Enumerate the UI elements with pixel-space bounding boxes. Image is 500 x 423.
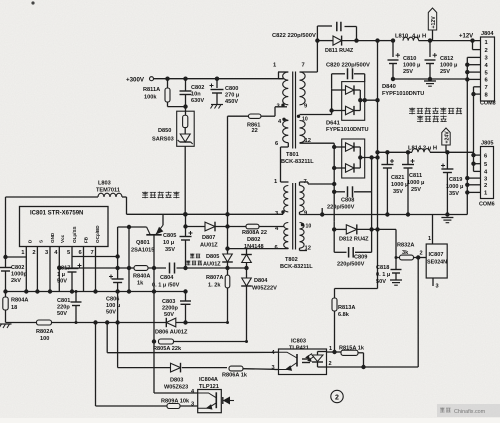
svg-text:630V: 630V [191,98,204,104]
wire J805 pin4 [474,170,481,172]
capacitor C801 [71,301,82,303]
wire [377,229,379,288]
IC807 body [426,244,447,278]
wire [354,89,360,91]
svg-text:C810: C810 [403,56,416,62]
svg-text:10 μ: 10 μ [163,240,175,246]
wire C822 loop right [356,27,358,41]
wire J804 pin6 [467,78,480,80]
svg-text:J805: J805 [481,141,493,147]
diode D806 [166,318,176,327]
T802 winding 10-12 [300,223,305,249]
junction [406,212,410,216]
svg-text:C818: C818 [376,265,389,271]
svg-text:270 μ: 270 μ [225,93,240,99]
junction [385,150,389,154]
T801 secondary winding 10-12 [300,121,306,143]
wire pin7 stub [300,71,318,73]
svg-text:Chinafix.com: Chinafix.com [454,409,486,415]
wire T802 pin7 stub [299,182,301,186]
wire [246,263,248,279]
wire [357,228,378,230]
wire J805 pin3 [467,177,480,179]
svg-text:SE024N: SE024N [427,260,447,266]
T802 core [292,183,294,250]
svg-text:C809: C809 [354,255,367,261]
svg-text:25V: 25V [411,187,421,193]
junction [445,150,449,154]
svg-text:D803: D803 [170,378,183,384]
wire pin1 down [25,259,27,292]
wire +300V rail [154,78,284,80]
junction [470,38,474,42]
junction [369,227,373,231]
svg-text:+12V: +12V [459,34,473,40]
svg-text:1k: 1k [137,281,144,287]
wire [363,353,365,367]
watermark [437,404,500,417]
junction [115,266,119,270]
note: secondary output of main SMPS [409,108,462,115]
plus C819 [441,165,445,167]
svg-text:TEM7011: TEM7011 [96,188,120,194]
svg-text:220p: 220p [57,305,70,311]
wire [227,268,229,275]
junction [244,266,248,270]
junction [406,150,410,154]
wire riser from T801 pin7 [316,41,318,72]
wire [307,182,309,184]
svg-text:50V: 50V [376,279,386,285]
wire top rail [6,196,99,198]
junction [183,212,187,216]
wire [58,268,60,292]
wire IC801 pin7 [95,247,97,259]
svg-text:35V: 35V [393,189,403,195]
plus C806 [109,276,113,278]
phase dot pin4 [282,118,285,121]
svg-text:1000 μ: 1000 μ [440,63,458,69]
wire [228,115,249,117]
wire pin4 down [58,259,60,269]
wire [333,221,335,229]
svg-text:D811 RU4Z: D811 RU4Z [325,48,354,54]
capacitor C812 (electrolytic) [425,59,436,61]
svg-text:3: 3 [191,402,194,408]
wire [185,79,187,91]
svg-text:1: 1 [329,346,332,352]
ground C818 [390,279,402,281]
svg-text:3k: 3k [402,250,409,256]
svg-text:COM8: COM8 [480,101,496,107]
wire C810 top [392,41,394,57]
svg-text:Vcc: Vcc [60,234,65,243]
note: aux power supply [186,261,202,266]
svg-text:450V: 450V [225,99,238,105]
wire D803 row [118,367,171,369]
coupling mark [302,358,310,360]
wire Q801 base down [153,235,155,393]
wire D850 down [184,146,186,214]
flag +12V [428,8,436,30]
svg-text:6.8k: 6.8k [338,312,350,318]
capacitor C821 (electrolytic) [381,164,393,166]
junction [93,289,97,293]
wire [246,249,248,255]
junction [375,155,379,159]
wire [168,106,186,108]
svg-text:0. 1 μ /50V: 0. 1 μ /50V [152,283,180,289]
wire pin1 branch to left rail [6,256,27,258]
junction [165,77,169,81]
wire J805 pin2 [467,184,480,186]
junction [3,289,7,293]
capacitor C802 10n [180,90,192,92]
svg-text:D850: D850 [158,128,171,134]
wire [317,352,319,356]
junction [471,153,475,157]
wire [174,341,247,343]
wire [417,258,419,368]
Q801 collector [147,227,151,235]
svg-text:IC804A: IC804A [199,377,218,383]
resistor R804A [3,297,8,310]
wire Vcc row [127,213,284,215]
wire IC801 pin2 [36,247,38,259]
wire [354,146,360,148]
junction [465,77,469,81]
wire J804 pin2 branch [472,41,474,50]
wire +12V to J804 [419,40,481,42]
wire J804 pin4 [467,64,480,66]
svg-text:35V: 35V [449,191,459,197]
svg-text:IC807: IC807 [429,252,444,258]
junction [127,289,131,293]
wire pin4 row [154,392,198,394]
wire link T801-6 to T802-1 [280,147,282,182]
wire vertical x371 [371,158,373,253]
junction [375,98,379,102]
plus C817 [78,265,82,267]
junction [127,266,131,270]
wire J805 pin5 [474,163,481,165]
svg-text:T801: T801 [286,152,299,158]
wire C811 top [407,152,409,164]
svg-text:1 μ: 1 μ [57,272,66,278]
junction [93,320,97,324]
wire [167,79,169,88]
wire Vcc link [72,256,118,258]
resistor R840A [134,266,148,271]
svg-text:3: 3 [436,284,439,290]
junction [332,190,336,194]
Q801 base bar [146,234,161,236]
wire pin3 down [49,259,51,292]
wire IC801 pin3 [49,247,51,259]
svg-text:3: 3 [272,365,275,371]
svg-text:2kV: 2kV [11,278,21,284]
wire [215,226,246,228]
wire R813A to opto [334,311,336,352]
junction [416,255,420,259]
svg-text:L810: L810 [395,34,408,40]
wire [395,273,397,280]
T802 winding 7-9 [300,186,305,212]
wire C821 top [386,152,388,164]
note: from [190,254,200,259]
junction [320,212,324,216]
wire J804 pin7 [474,86,481,88]
svg-text:7: 7 [91,250,94,256]
capacitor C809 [348,247,350,257]
svg-text:R804A: R804A [11,298,28,304]
wire [317,362,319,367]
wire C803 bottom [185,304,187,322]
svg-text:OLp/SS: OLp/SS [72,226,77,243]
wire T801 pin6 stub [287,143,289,147]
wire C812 top [429,41,431,57]
wire C801 bottom [75,306,77,323]
wire [278,72,280,79]
wire IC807 pin1 to rail [432,215,434,245]
wire [5,310,7,323]
IC803 emitter arrow [286,366,291,370]
wire [261,115,275,117]
junction [369,155,373,159]
wire R809A row [96,405,168,407]
wire to IC807 pin2 [414,257,427,259]
wire pin2 down [36,259,38,292]
svg-text:1000p: 1000p [11,272,27,278]
wire J804 pin3 [467,56,480,58]
wire [148,267,166,269]
wire [281,181,289,183]
wire C808 left [334,191,345,193]
svg-text:T802: T802 [285,257,298,263]
junction [375,227,379,231]
svg-text:S: S [39,240,44,243]
junction [465,176,469,180]
wire [52,322,166,324]
IC801 body [20,207,109,247]
wire stub [321,208,323,215]
wire [117,283,119,368]
wire pin3 stub [275,369,279,371]
junction [183,266,187,270]
wire aux rectifier feed [228,248,289,250]
junction [332,166,336,170]
svg-text:18: 18 [11,305,17,311]
svg-text:50V: 50V [164,312,174,318]
wire [335,288,378,290]
junction [105,320,109,324]
stray dot top [31,1,34,4]
wire C803 top [185,292,187,302]
connector J805 body [481,147,494,199]
stub [230,400,235,402]
junction [465,70,469,74]
svg-text:W05Z623: W05Z623 [164,385,188,391]
wire J804 pin8 [474,93,481,95]
note: output circuit [417,116,447,123]
capacitor C811 (electrolytic) [402,164,414,166]
svg-text:OCp/BD: OCp/BD [95,225,100,243]
svg-text:GND: GND [50,232,55,243]
wire pin7 down [95,259,97,292]
junction [35,289,39,293]
resistor R809A [167,404,180,409]
svg-text:50V: 50V [57,279,67,285]
zener inside D850 [180,134,190,142]
svg-text:1000 μ: 1000 μ [407,180,425,186]
wire J805 pin6 [474,154,481,156]
wire IC803 pin4 row [107,351,274,353]
wire [334,228,346,230]
wire [176,322,228,324]
Q801 emitter arrow [157,228,163,234]
junction [375,38,379,42]
junction [3,255,7,259]
junction [354,38,358,42]
svg-text:D802: D802 [247,237,260,243]
diode D812 [346,225,357,234]
wire C805 bottom [185,240,187,268]
wire box2 input link [333,143,335,184]
wire collector row [118,226,147,228]
junction [471,162,475,166]
wire J805 pin1 [467,191,480,193]
svg-text:7: 7 [302,63,305,69]
resistor R805A [159,339,174,344]
plus C821 [390,160,394,162]
plus C811 [411,160,415,162]
wire [122,196,127,198]
wire [246,286,248,342]
wire C810 bottom [392,64,394,80]
wire [332,89,346,91]
svg-text:22: 22 [252,128,258,134]
wire R861 drop [227,116,229,226]
wire +24V to J805 [430,151,474,153]
wire +24V bus vertical [473,87,475,172]
svg-text:C819: C819 [449,177,462,183]
svg-text:C803: C803 [162,299,175,305]
svg-text:C811: C811 [409,173,422,179]
wire C820 loop right [364,74,366,82]
phase dot T802 pin10 [301,223,304,226]
junction [391,77,395,81]
svg-text:C805: C805 [163,233,176,239]
wire IC801 pin1 [25,247,27,259]
connector J804 body [481,37,495,101]
wire pin6 down [83,259,85,292]
chassis ground C800 [211,104,223,106]
diode D641a [346,143,355,151]
wire T802 pin9 stub [299,212,301,215]
wire IC801 pin6 [83,247,85,259]
wire [177,267,228,269]
wire [332,73,345,75]
wire [227,288,229,323]
wire IC801 pin4 [58,247,60,259]
T801 secondary winding 7-9 [300,72,306,105]
wire [334,167,345,169]
resistor inside D850 [183,115,188,127]
svg-text:10: 10 [306,224,312,230]
wire [227,262,229,268]
svg-text:2: 2 [485,48,488,54]
wire +12V [342,40,379,42]
svg-text:R802A: R802A [36,329,53,335]
junction [183,289,187,293]
svg-text:25V: 25V [440,69,450,75]
svg-text:C802: C802 [11,265,24,271]
diode D641b [346,164,355,172]
wire [334,251,346,253]
svg-text:1: 1 [428,236,431,242]
wire from T801 pin10 [300,114,332,116]
wire [185,107,187,116]
wire [396,257,399,259]
svg-text:C808: C808 [341,198,354,204]
svg-text:35V: 35V [165,247,175,253]
resistor R815A [341,350,358,355]
wire [354,110,360,112]
capacitor C820 [347,68,349,79]
wire [5,271,7,297]
wire [167,102,169,107]
capacitor C803 [180,300,191,302]
svg-text:7: 7 [485,85,488,91]
wire [117,227,119,279]
junction [225,212,229,216]
junction [385,212,389,216]
wire to IC803 pin3 [243,368,275,371]
capacitor C808 [347,186,349,197]
wire IC807 pin3 [432,278,434,286]
junction [428,38,432,42]
svg-text:FYPF1010DNTU: FYPF1010DNTU [382,91,424,97]
svg-text:BCK-83211L: BCK-83211L [280,264,313,270]
ground symbol [424,80,436,82]
junction [152,266,156,270]
svg-text:FB: FB [84,236,89,243]
wire C811 bottom [407,168,409,215]
wire C818 top [395,258,397,270]
capacitor C822 [336,22,338,32]
svg-text:IC803: IC803 [291,339,306,345]
junction [391,38,395,42]
resistor R807A [225,275,230,288]
wire ground bus vertical [466,57,468,214]
wire C819 bottom [446,173,448,215]
svg-text:2: 2 [484,183,487,189]
svg-text:R840A: R840A [133,274,150,280]
svg-text:C800: C800 [225,86,238,92]
svg-text:AU01Z: AU01Z [200,243,218,249]
IC804A body [198,390,222,413]
D850 box [177,111,195,146]
junction [375,150,379,154]
svg-text:D804: D804 [254,278,268,284]
junction [115,320,119,324]
junction [75,290,78,293]
rectifier D641 package [342,139,365,178]
svg-text:100k: 100k [144,95,157,101]
wire flag stem [445,145,447,152]
junction [445,212,449,216]
junction [225,224,229,228]
